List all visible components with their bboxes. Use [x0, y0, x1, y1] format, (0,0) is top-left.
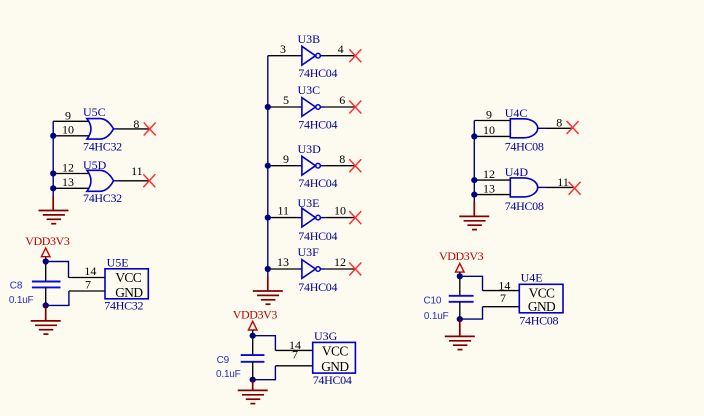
wire: gnd node to pin7 corner — [46, 291, 69, 305]
junction at VDD node — [250, 333, 256, 339]
wire: U3B output pin 4 — [320, 55, 326, 57]
wire: pin 9 input — [268, 165, 298, 167]
wire: pin 10 input (U4C) — [474, 135, 510, 137]
junction at pin 13 — [265, 266, 271, 272]
or-gate U5C — [87, 119, 114, 140]
svg-text:0.1uF: 0.1uF — [9, 295, 34, 306]
wire: cap bottom to gnd node — [252, 362, 254, 380]
svg-text:U3C: U3C — [298, 83, 321, 97]
svg-text:7: 7 — [85, 278, 91, 292]
svg-text:U5D: U5D — [83, 158, 107, 172]
svg-text:74HC04: 74HC04 — [313, 373, 352, 387]
wire: U3D output pin 8 — [320, 165, 326, 167]
wire: middle input bus vertical — [267, 56, 269, 277]
and-gate U4C — [510, 119, 537, 138]
wire: pin 7 (U3G GND) — [275, 365, 312, 367]
svg-text:11: 11 — [131, 164, 143, 178]
svg-text:VCC: VCC — [115, 270, 141, 285]
ground symbol (C8) — [31, 305, 61, 334]
svg-text:13: 13 — [277, 255, 289, 269]
svg-text:74HC32: 74HC32 — [83, 191, 122, 205]
svg-text:13: 13 — [483, 182, 495, 196]
svg-text:74HC04: 74HC04 — [298, 117, 337, 131]
svg-text:10: 10 — [483, 123, 495, 137]
and-gate U4D — [510, 178, 537, 197]
wire: pin 9 input (U4C) — [474, 120, 510, 122]
svg-text:74HC08: 74HC08 — [505, 140, 544, 154]
svg-text:U3D: U3D — [298, 142, 322, 156]
svg-text:VDD3V3: VDD3V3 — [25, 234, 70, 248]
svg-text:U3G: U3G — [314, 329, 338, 343]
junction at gnd node — [250, 377, 256, 383]
svg-text:8: 8 — [556, 116, 562, 130]
svg-text:4: 4 — [338, 42, 344, 56]
svg-text:7: 7 — [500, 291, 506, 305]
ground symbol (left gates) — [39, 196, 69, 224]
no-connect X on pin 6 — [349, 101, 361, 114]
wire: U4C output pin 8 — [538, 127, 546, 129]
wire: U5D output pin 11 — [114, 180, 120, 182]
wire: pin 12 input (U4D) — [474, 179, 510, 181]
wire: pin 13 input — [53, 187, 89, 189]
junction at pin 5 — [265, 104, 271, 110]
inverter U3D — [302, 156, 316, 175]
inverter U3E — [302, 208, 316, 227]
wire: pin 13 input — [268, 268, 298, 270]
wire: left input bus vertical — [52, 121, 54, 196]
no-connect X on pin 8 — [349, 159, 361, 172]
capacitor C9 — [241, 355, 265, 362]
wire: pin 13 input (U4D) — [474, 194, 510, 196]
svg-text:0.1uF: 0.1uF — [216, 369, 241, 380]
svg-text:3: 3 — [280, 42, 286, 56]
wire: VDD node to pin14 corner — [253, 336, 276, 351]
junction on bus at pin 12 — [50, 170, 56, 176]
svg-text:U5E: U5E — [107, 255, 129, 269]
ground symbol (middle bus) — [253, 277, 283, 305]
wire: pin 9 input — [53, 120, 89, 122]
wire: cap bottom to gnd node — [45, 287, 47, 305]
junction on bus at pin 10 — [50, 133, 56, 139]
no-connect X on pin 8 — [567, 121, 579, 134]
wire: pin 14 (U5E VCC) — [69, 277, 106, 279]
wire: pin 3 input — [268, 55, 298, 57]
junction on bus at pin 13 — [50, 185, 56, 191]
svg-text:U4E: U4E — [521, 271, 543, 285]
svg-text:9: 9 — [486, 107, 492, 121]
inverter U3B — [302, 46, 316, 65]
svg-text:VCC: VCC — [529, 285, 555, 300]
svg-text:U4D: U4D — [505, 165, 529, 179]
svg-text:U3B: U3B — [298, 32, 321, 46]
power part box U5E — [105, 269, 148, 299]
svg-text:U3E: U3E — [298, 196, 320, 210]
junction at gnd node — [43, 302, 49, 308]
svg-text:74HC08: 74HC08 — [519, 314, 558, 328]
wire: VDD stem to cap — [252, 330, 254, 355]
no-connect X on pin 8 — [144, 123, 156, 136]
wire: gnd node to pin7 corner — [460, 307, 483, 319]
wire: VDD node to pin14 corner — [460, 276, 483, 290]
svg-text:GND: GND — [528, 299, 556, 314]
power part box U3G — [313, 342, 356, 373]
svg-text:8: 8 — [133, 117, 139, 131]
inverter U3F — [302, 260, 316, 279]
no-connect X on pin 10 — [349, 211, 361, 224]
svg-text:VDD3V3: VDD3V3 — [439, 249, 484, 263]
svg-text:C8: C8 — [10, 280, 23, 291]
wire: pin 14 (U3G VCC) — [275, 349, 312, 351]
no-connect X on pin 12 — [349, 263, 361, 276]
svg-text:11: 11 — [277, 204, 289, 218]
or-gate U5D — [87, 170, 114, 191]
svg-text:13: 13 — [62, 175, 74, 189]
svg-text:0.1uF: 0.1uF — [424, 311, 449, 322]
svg-text:U4C: U4C — [505, 106, 528, 120]
wire: pin 12 input — [53, 173, 89, 175]
wire: U3C output pin 6 — [320, 106, 326, 108]
capacitor C10 — [449, 296, 474, 302]
wire: pin 5 input — [268, 106, 298, 108]
junction at pin 9 — [265, 163, 271, 169]
wire: pin 7 (U5E GND) — [69, 290, 105, 292]
junction at VDD node — [457, 273, 463, 279]
junction at gnd node — [457, 316, 463, 322]
svg-text:VCC: VCC — [322, 344, 348, 359]
wire: pin 10 input — [53, 135, 89, 137]
svg-text:74HC08: 74HC08 — [505, 199, 544, 213]
svg-text:74HC04: 74HC04 — [298, 280, 337, 294]
wire: right input bus vertical — [473, 121, 475, 203]
svg-text:14: 14 — [84, 264, 96, 278]
svg-text:U5C: U5C — [83, 105, 106, 119]
wire: pin 11 input — [268, 217, 298, 219]
junction at VDD node — [43, 258, 49, 264]
power part box U4E — [519, 284, 563, 313]
no-connect X on pin 4 — [349, 49, 361, 62]
wire: cap bottom to gnd node — [459, 302, 461, 319]
wire: gnd node to pin7 corner — [253, 366, 276, 380]
ground symbol (C10) — [445, 319, 475, 350]
junction at pin 11 — [265, 215, 271, 221]
svg-text:74HC32: 74HC32 — [83, 140, 122, 154]
svg-text:VDD3V3: VDD3V3 — [233, 307, 278, 321]
svg-text:U3F: U3F — [298, 245, 320, 259]
inverter U3C — [302, 98, 316, 117]
wire: U3E output pin 10 — [320, 217, 326, 219]
no-connect X on pin 11 — [569, 182, 581, 195]
wire: U4D output pin 11 — [538, 186, 546, 188]
svg-text:12: 12 — [334, 255, 346, 269]
wire: U3F output pin 12 — [320, 268, 326, 270]
junction on bus at pin 10 — [471, 133, 477, 139]
svg-text:8: 8 — [339, 152, 345, 166]
capacitor C8 — [32, 282, 61, 288]
wire: VDD stem to cap — [45, 257, 47, 282]
svg-text:74HC04: 74HC04 — [298, 229, 337, 243]
ground symbol (C9) — [238, 380, 268, 404]
svg-text:5: 5 — [283, 93, 289, 107]
junction on bus at pin 13 — [471, 192, 477, 198]
svg-text:74HC32: 74HC32 — [104, 298, 143, 312]
svg-text:11: 11 — [557, 175, 569, 189]
svg-text:12: 12 — [483, 167, 495, 181]
svg-text:10: 10 — [334, 204, 346, 218]
svg-text:6: 6 — [339, 93, 345, 107]
svg-text:7: 7 — [292, 348, 298, 362]
svg-text:74HC04: 74HC04 — [298, 176, 337, 190]
wire: pin 14 (U4E VCC) — [483, 290, 520, 292]
no-connect X on pin 11 — [143, 174, 155, 187]
svg-text:9: 9 — [65, 108, 71, 122]
svg-text:74HC04: 74HC04 — [298, 66, 337, 80]
wire: VDD stem to cap — [459, 272, 461, 296]
wire: U5C output pin 8 — [114, 128, 120, 130]
junction on bus at pin 12 — [471, 177, 477, 183]
svg-text:GND: GND — [321, 359, 349, 374]
svg-text:10: 10 — [62, 123, 74, 137]
wire: pin 7 (U4E GND) — [483, 306, 520, 308]
ground symbol (right gates) — [459, 202, 489, 230]
svg-text:C10: C10 — [424, 296, 442, 307]
svg-text:9: 9 — [283, 152, 289, 166]
wire: VDD node to pin14 corner — [46, 262, 69, 278]
svg-text:C9: C9 — [217, 355, 230, 366]
svg-text:12: 12 — [62, 160, 74, 174]
